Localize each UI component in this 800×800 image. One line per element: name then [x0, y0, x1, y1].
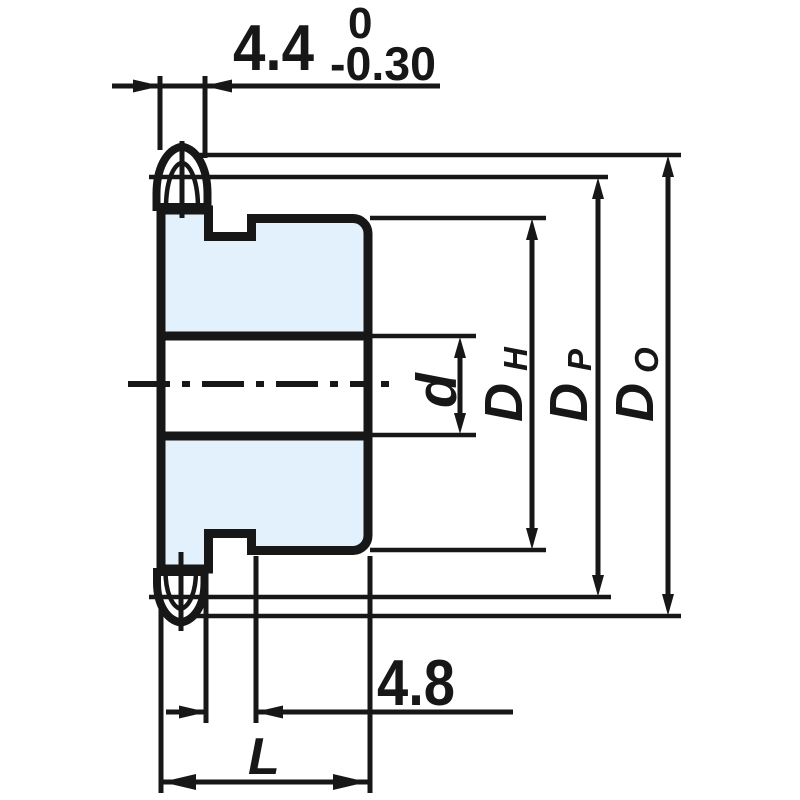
bottom tooth centerline	[179, 552, 184, 631]
extension line Do top (tooth tip)	[193, 153, 681, 158]
extension line Dh top (hub top)	[370, 216, 546, 221]
sprocket body cross-section	[161, 210, 368, 569]
top tooth inner arc	[166, 163, 198, 209]
dimension Dp: line	[596, 190, 601, 584]
extension line d bottom (bore bottom)	[372, 433, 476, 438]
horizontal centerline (dash-dot)	[128, 381, 368, 387]
dimension L: left arrowhead	[162, 774, 196, 790]
svg-text:d: d	[405, 372, 469, 408]
dimension 4.4: left extension line	[158, 76, 163, 150]
extension line Dp bottom	[149, 595, 611, 600]
dimension Do: top arrowhead	[662, 156, 674, 178]
bore bottom edge	[157, 432, 373, 441]
dimension L: right extension line	[368, 556, 373, 793]
dimension Dp: top arrowhead	[592, 178, 604, 200]
dimension 4.8: left arrowhead	[179, 706, 207, 719]
svg-text:-0.30: -0.30	[330, 37, 436, 90]
top tooth centerline	[180, 141, 185, 218]
dimension L: left extension line	[159, 608, 164, 793]
svg-text:4.8: 4.8	[377, 646, 455, 719]
top tooth outer profile	[157, 147, 208, 208]
bottom tooth base edge	[157, 565, 208, 574]
extension line Dh bottom (hub bottom)	[370, 548, 546, 553]
dimension L: dimension line	[161, 780, 368, 785]
extension line Dp top (pitch line)	[149, 175, 608, 180]
dimension 4.4: right arrowhead	[204, 80, 232, 93]
dimension d: line	[458, 350, 463, 422]
extension line d top (bore top)	[372, 334, 476, 339]
dimension 4.4: left arrowhead	[133, 80, 161, 93]
dimension Do: bottom arrowhead	[662, 594, 674, 616]
bottom tooth outer profile	[157, 572, 205, 623]
top tooth base edge	[157, 206, 208, 215]
bottom tooth inner arc	[166, 571, 197, 609]
dimension Dh: line	[530, 232, 535, 536]
dimension 4.4: dimension line	[112, 84, 440, 89]
dimension 4.8: left extension line	[204, 575, 209, 723]
dimension 4.8: right arrowhead	[255, 706, 283, 719]
dimension Do: line	[666, 168, 671, 603]
dimension 4.8: right line	[256, 710, 513, 715]
dimension Dh: bottom arrowhead	[526, 528, 538, 550]
dimension Dp: bottom arrowhead	[592, 575, 604, 597]
dimension Dh: top arrowhead	[526, 219, 538, 241]
dimension L: right arrowhead	[333, 774, 367, 790]
bore band (white)	[165, 341, 364, 432]
dimension 4.8: left tail line	[166, 710, 206, 715]
centerline end dot	[381, 381, 389, 387]
left edge across bore	[157, 331, 166, 441]
dimension d: bottom arrowhead	[454, 413, 466, 434]
svg-text:4.4: 4.4	[233, 11, 314, 84]
bore top edge	[157, 332, 373, 341]
svg-text:DO: DO	[605, 347, 665, 422]
right edge across bore	[364, 331, 373, 441]
dimension d: top arrowhead	[454, 337, 466, 358]
dimension 4.4: right extension line	[203, 76, 208, 158]
svg-text:DP: DP	[539, 348, 599, 422]
svg-text:L: L	[248, 728, 280, 786]
svg-text:DH: DH	[474, 346, 534, 422]
dimension 4.8: right extension line	[254, 556, 259, 723]
extension line Do bottom	[195, 614, 681, 619]
